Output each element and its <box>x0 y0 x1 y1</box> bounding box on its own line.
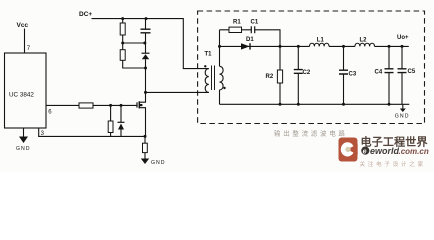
svg-text:L1: L1 <box>317 38 325 44</box>
svg-text:T1: T1 <box>205 51 213 57</box>
svg-text:GND: GND <box>395 113 410 119</box>
svg-text:DC+: DC+ <box>79 11 92 18</box>
svg-text:GND: GND <box>16 146 31 152</box>
svg-text:C1: C1 <box>251 20 259 26</box>
svg-text:C3: C3 <box>349 72 357 78</box>
svg-text:C4: C4 <box>375 70 383 76</box>
svg-text:Vcc: Vcc <box>17 22 29 29</box>
svg-text:L2: L2 <box>360 38 368 44</box>
svg-text:eworld: eworld <box>370 146 400 156</box>
svg-text:C2: C2 <box>303 70 311 76</box>
svg-text:e: e <box>363 148 367 155</box>
svg-text:Uo+: Uo+ <box>397 35 409 41</box>
svg-text:D1: D1 <box>246 37 254 43</box>
svg-text:UC 3842: UC 3842 <box>9 92 34 99</box>
svg-text:输出整流滤波电路: 输出整流滤波电路 <box>274 129 348 138</box>
svg-text:R1: R1 <box>233 20 241 26</box>
svg-text:关注电子设计之家: 关注电子设计之家 <box>360 160 426 168</box>
svg-text:GND: GND <box>151 160 166 166</box>
svg-text:.com.cn: .com.cn <box>399 147 429 156</box>
svg-text:R2: R2 <box>266 74 274 80</box>
svg-text:C5: C5 <box>408 69 416 75</box>
